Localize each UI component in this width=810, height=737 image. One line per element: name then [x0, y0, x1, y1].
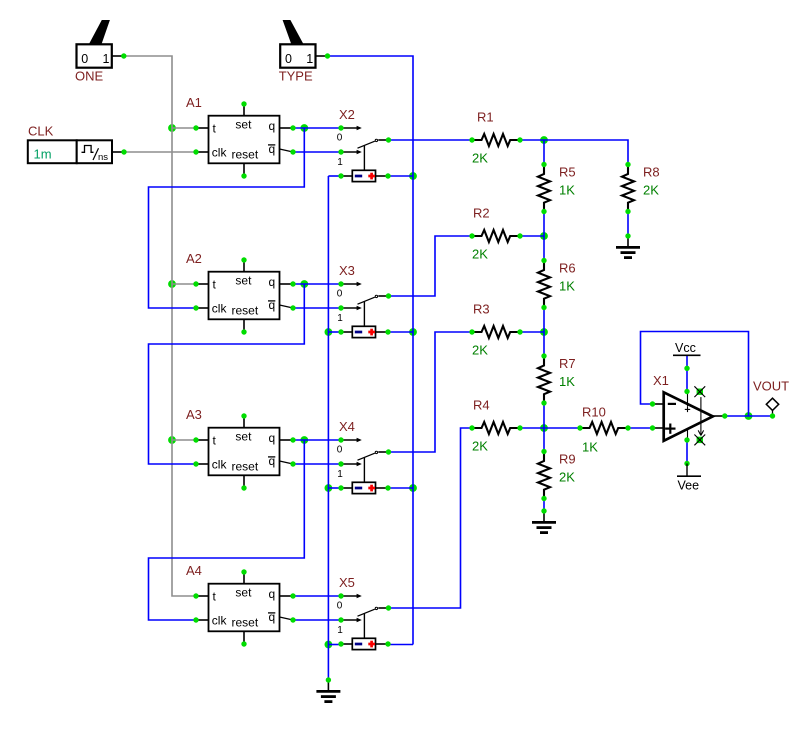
junction ONE rail at A1 t	[168, 124, 176, 132]
svg-text:R9: R9	[559, 452, 576, 467]
svg-text:ONE: ONE	[75, 69, 104, 84]
wire X2 common to R1	[389, 139, 473, 141]
wire A2 q to X3 input 0	[293, 283, 341, 285]
output terminal VOUT	[753, 379, 789, 419]
junction battery- rail X4	[325, 484, 333, 492]
junction battery+ rail X2	[409, 172, 417, 180]
resistor R4	[469, 398, 522, 454]
toggle switch ONE	[75, 20, 127, 84]
op-amp X1	[650, 366, 728, 467]
wire ONE output net (gray)	[124, 56, 197, 596]
wire A3 q to A4 clk	[149, 440, 305, 620]
switch X5	[337, 575, 391, 638]
wire op-amp to Vee	[686, 440, 688, 464]
wire A2 q to A3 clk	[149, 284, 305, 464]
svg-text:set: set	[235, 429, 252, 443]
resistor R7	[538, 353, 576, 405]
resistor R1	[469, 110, 522, 166]
wire A3 qb to X4 input 1	[293, 463, 341, 465]
wire A3 q to X4 input 0	[293, 439, 341, 441]
wire X4 common to R3	[389, 332, 473, 452]
svg-text:q: q	[269, 275, 276, 289]
flip-flop A4	[186, 563, 296, 647]
wire R3 to node3	[520, 331, 544, 333]
junction A1 q	[300, 124, 308, 132]
wire A1 q to X2 input 0	[293, 127, 341, 129]
svg-text:set: set	[235, 273, 252, 287]
wire Vcc to op-amp	[686, 355, 688, 392]
svg-text:Vee: Vee	[678, 479, 700, 493]
svg-text:set: set	[235, 117, 252, 131]
wire X3 common to R2	[389, 236, 473, 296]
toggle switch TYPE	[279, 20, 330, 84]
resistor R10	[577, 405, 630, 455]
svg-text:reset: reset	[232, 304, 259, 318]
wire X5 common to R4	[389, 428, 473, 608]
wire X3 battery- to rail	[328, 331, 341, 333]
svg-text:X3: X3	[339, 263, 355, 278]
svg-text:2K: 2K	[559, 469, 575, 484]
svg-text:2K: 2K	[472, 247, 488, 262]
svg-text:0: 0	[337, 132, 343, 143]
junction feedback at output	[745, 412, 753, 420]
wire node2 to R6	[543, 236, 545, 261]
wire X3 battery+ to rail	[388, 331, 413, 333]
battery of X3	[338, 326, 390, 337]
svg-text:clk: clk	[212, 613, 228, 627]
svg-text:X1: X1	[653, 373, 669, 388]
svg-text:X4: X4	[339, 419, 355, 434]
wire ladder node1 to R5	[543, 140, 545, 165]
wire A1 qb to X2 input 1	[293, 151, 341, 153]
wire op-amp output to VOUT	[725, 415, 773, 417]
wire A4 qb to X5 input 1	[293, 619, 341, 621]
wire ONE to A2 t stub	[172, 283, 196, 285]
svg-text:1: 1	[337, 313, 343, 324]
switch X2	[337, 107, 391, 170]
wire op-amp feedback	[641, 332, 749, 417]
wire R9 to ground	[543, 499, 545, 512]
wire A2 qb to X3 input 1	[293, 307, 341, 309]
svg-text:A3: A3	[186, 407, 202, 422]
wire R5 to node2	[543, 212, 545, 237]
wire R7 to node4	[543, 403, 545, 428]
ground under R8	[616, 233, 640, 257]
svg-text:q: q	[269, 298, 276, 312]
wire R10 to op-amp + input	[628, 427, 653, 429]
switch X4	[337, 419, 391, 482]
svg-text:R10: R10	[582, 405, 606, 420]
svg-text:1: 1	[337, 157, 343, 168]
svg-text:2K: 2K	[472, 343, 488, 358]
svg-text:0: 0	[337, 444, 343, 455]
svg-text:VOUT: VOUT	[753, 379, 789, 394]
wire R1 to ladder node and R8	[520, 140, 628, 165]
svg-text:Vcc: Vcc	[675, 341, 696, 355]
svg-text:TYPE: TYPE	[279, 69, 313, 84]
op-amp offset arrow	[698, 397, 703, 435]
wire R6 to node3	[543, 308, 545, 333]
wire node4 to R9	[543, 428, 545, 452]
svg-text:R7: R7	[559, 356, 576, 371]
ground under battery rail	[316, 677, 340, 701]
svg-text:1: 1	[306, 52, 313, 66]
resistor R3	[469, 302, 522, 358]
svg-text:A4: A4	[186, 563, 202, 578]
wire X4 battery- to rail	[328, 487, 341, 489]
svg-text:CLK: CLK	[28, 124, 54, 139]
junction ladder node 4	[540, 424, 548, 432]
svg-text:1K: 1K	[559, 182, 575, 197]
wire node4 to R10	[544, 427, 580, 429]
svg-text:q: q	[269, 610, 276, 624]
junction A3 q	[300, 436, 308, 444]
svg-text:2K: 2K	[643, 182, 659, 197]
svg-text:q: q	[269, 587, 276, 601]
wire X2 battery+ to rail	[388, 175, 413, 177]
svg-text:A2: A2	[186, 251, 202, 266]
wire R2 to node2	[520, 235, 544, 237]
junction battery- rail X5	[325, 641, 333, 649]
svg-text:0: 0	[337, 288, 343, 299]
flip-flop A3	[186, 407, 296, 491]
svg-text:clk: clk	[212, 457, 228, 471]
junction ladder node 2	[540, 232, 548, 240]
battery of X2	[338, 170, 390, 181]
flip-flop A1	[186, 95, 296, 179]
svg-text:X2: X2	[339, 107, 355, 122]
svg-text:1: 1	[337, 625, 343, 636]
junction battery+ rail X3	[409, 328, 417, 336]
battery of X5	[338, 638, 390, 649]
svg-text:reset: reset	[232, 616, 259, 630]
svg-text:clk: clk	[212, 145, 228, 159]
junction A2 q	[300, 280, 308, 288]
switch X3	[337, 263, 391, 326]
wire X5 battery- to rail	[328, 644, 341, 646]
resistor R2	[469, 206, 522, 262]
battery of X4	[338, 482, 390, 493]
junction battery+ rail X4	[409, 484, 417, 492]
junction ladder node 3	[540, 328, 548, 336]
svg-text:1K: 1K	[559, 278, 575, 293]
svg-text:R8: R8	[643, 165, 660, 180]
svg-text:1K: 1K	[559, 374, 575, 389]
wire A1 q to A2 clk	[149, 128, 305, 308]
svg-text:q: q	[269, 454, 276, 468]
resistor R9	[538, 449, 576, 501]
wire CLK to A1 clk	[124, 151, 196, 153]
svg-text:clk: clk	[212, 301, 228, 315]
junction ONE rail at A2 t	[168, 280, 176, 288]
wire X4 battery+ to rail	[388, 487, 413, 489]
svg-text:2K: 2K	[472, 439, 488, 454]
svg-text:A1: A1	[186, 95, 202, 110]
resistor R6	[538, 258, 576, 310]
op-amp offset marker top	[694, 386, 705, 397]
svg-text:set: set	[235, 585, 252, 599]
svg-text:q: q	[269, 119, 276, 133]
svg-text:reset: reset	[232, 460, 259, 474]
svg-text:R2: R2	[473, 206, 490, 221]
junction ladder node 1	[540, 136, 548, 144]
svg-text:0: 0	[285, 52, 292, 66]
svg-text:X5: X5	[339, 575, 355, 590]
svg-text:R6: R6	[559, 261, 576, 276]
wire X2 battery- to rail	[328, 175, 341, 177]
wire R4 to node4	[520, 427, 544, 429]
svg-text:q: q	[269, 142, 276, 156]
flip-flop A2	[186, 251, 296, 335]
clock source CLK	[28, 124, 127, 164]
junction battery- rail X3	[325, 328, 333, 336]
wire TYPE to battery+ rail	[328, 56, 413, 645]
svg-text:q: q	[269, 431, 276, 445]
power Vee	[677, 464, 701, 493]
svg-text:reset: reset	[232, 148, 259, 162]
svg-text:R5: R5	[559, 165, 576, 180]
ground under R9	[532, 508, 556, 532]
svg-text:1: 1	[337, 469, 343, 480]
svg-text:1m: 1m	[34, 147, 52, 162]
junction ONE rail at A3 t	[168, 436, 176, 444]
op-amp offset marker bottom	[694, 435, 705, 446]
wire ONE to A1 t stub	[172, 127, 196, 129]
wire node3 to R7	[543, 332, 545, 356]
svg-text:2K: 2K	[472, 151, 488, 166]
svg-text:1K: 1K	[582, 440, 598, 455]
svg-text:1: 1	[103, 52, 110, 66]
svg-text:R1: R1	[477, 110, 494, 125]
wire A4 q to X5 input 0	[293, 595, 341, 597]
wire battery- rail to ground	[327, 176, 329, 680]
svg-text:0: 0	[337, 600, 343, 611]
resistor R8	[622, 162, 660, 214]
svg-text:0: 0	[81, 52, 88, 66]
wire R8 to ground	[627, 212, 629, 237]
svg-text:ns: ns	[98, 152, 108, 163]
power Vcc	[673, 341, 701, 355]
svg-text:R3: R3	[473, 302, 490, 317]
wire X5 battery+ to rail	[388, 644, 413, 646]
resistor R5	[538, 162, 576, 214]
svg-text:R4: R4	[473, 398, 490, 413]
wire ONE to A3 t stub	[172, 439, 196, 441]
